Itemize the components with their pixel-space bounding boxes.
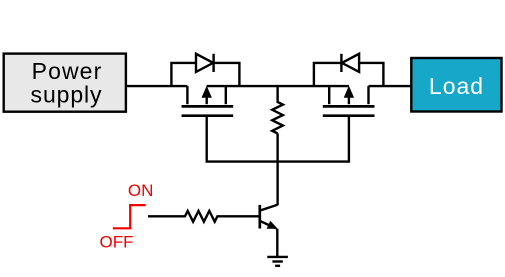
wire: power supply to Q1 drain, rail y=85.8	[126, 85, 187, 87]
svg-text:Load: Load	[429, 73, 484, 99]
power supply box	[4, 54, 126, 112]
transistor Q3 (NPN)	[260, 205, 278, 257]
svg-text:OFF: OFF	[100, 232, 134, 251]
svg-text:Power: Power	[32, 58, 103, 84]
resistor R1 (gate pull, vertical)	[272, 86, 283, 133]
wire: Q2 drain to Load	[369, 85, 413, 87]
resistor R2 (base resistor, horizontal)	[148, 211, 259, 222]
wire: center rail between Q1 source and Q2 source	[207, 85, 349, 87]
load box	[411, 58, 501, 112]
wire: center node down to Q3 collector	[276, 133, 278, 205]
transistor Q2 (right MOSFET)	[323, 86, 375, 162]
diode D1 (body diode of Q1)	[171, 54, 239, 86]
svg-text:ON: ON	[128, 181, 153, 200]
ground	[267, 257, 288, 266]
transistor Q1 (left MOSFET)	[182, 86, 234, 162]
wire: gate rail connecting Q1/Q2 gates	[206, 160, 351, 162]
svg-text:supply: supply	[31, 82, 103, 108]
diode D2 (body diode of Q2)	[314, 54, 384, 86]
node: ON/OFF step waveform	[113, 205, 146, 228]
